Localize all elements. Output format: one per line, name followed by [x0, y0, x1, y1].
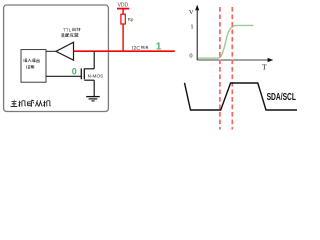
svg-text:I2C: I2C: [132, 46, 140, 52]
label I2C总线: [132, 46, 148, 52]
T axis: [197, 58, 273, 62]
op-amp/buffer U1: TTL Schmitt trigger triangle: [56, 42, 74, 60]
wire: control box to buffer input: [46, 50, 56, 52]
resistor Rp: [121, 14, 125, 24]
svg-text:Rp: Rp: [128, 17, 134, 22]
wire/bus I2C (red horizontal): [74, 50, 175, 52]
label 输入输出控制: [24, 59, 40, 69]
label 主机或从机 (master or slave): [11, 100, 51, 107]
wire: drain to bus: [93, 51, 95, 69]
wire: pull-up resistor to bus: [122, 24, 124, 51]
wire: VDD to resistor: [122, 9, 124, 15]
svg-text:1: 1: [190, 24, 193, 31]
svg-text:TTL: TTL: [63, 28, 72, 33]
dashed marker t2: [231, 7, 233, 130]
dashed marker t1: [219, 7, 221, 130]
label TTL肖特基触发器: [61, 28, 80, 37]
svg-text:N-MOS: N-MOS: [88, 74, 104, 79]
svg-text:V: V: [189, 9, 194, 16]
device box 主机或从机: [4, 5, 109, 112]
svg-text:T: T: [262, 63, 267, 72]
power VDD rail bar: [117, 8, 129, 10]
V axis: [195, 5, 199, 60]
ground: [86, 97, 100, 101]
svg-text:VDD: VDD: [118, 2, 129, 8]
svg-text:0: 0: [189, 53, 192, 60]
svg-text:1: 1: [156, 41, 162, 52]
wire: source to ground: [93, 80, 95, 96]
waveform SDA/SCL: [185, 83, 298, 110]
green voltage rise curve: [198, 25, 254, 58]
I/O control block: [21, 50, 46, 83]
svg-text:0: 0: [72, 66, 77, 76]
transistor Q1 N-MOS: [81, 68, 94, 80]
svg-text:SDA/SCL: SDA/SCL: [267, 92, 296, 103]
wire: gate (control to N-MOS): [46, 75, 81, 77]
